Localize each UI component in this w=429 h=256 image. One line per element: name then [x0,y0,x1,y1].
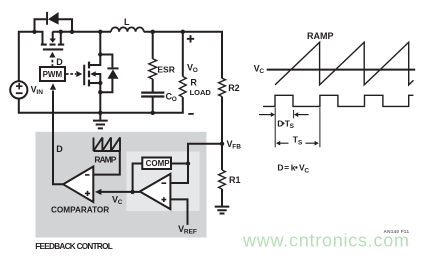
svg-text:D: D [277,163,283,173]
wire: top rail switch node segment [52,31,111,33]
svg-text:ESR: ESR [157,65,174,75]
PMOS gate bar [43,48,63,50]
VIN plus sign [16,83,22,89]
TS arrow [280,142,316,144]
NMOS Q2 gate bar [83,65,85,86]
svg-text:D: D [56,57,63,67]
svg-text:COMP: COMP [146,159,171,168]
svg-text:LOAD: LOAD [190,88,212,97]
error amp minus sign [162,182,167,184]
resistor R1 [219,170,226,189]
svg-text:www.cntronics.com: www.cntronics.com [242,231,409,251]
wire: VC from error amp to comparator [101,191,140,193]
svg-text:REF: REF [184,228,197,235]
svg-text:R: R [190,78,197,88]
label minus output [188,113,193,115]
resistor R LOAD [179,77,186,98]
wire: VIN top to PMOS source leg [19,32,43,82]
NMOS body arrow (left) [90,71,95,76]
wire: R2 to VFB node [221,97,223,144]
node VFB [220,142,224,146]
PWM block U1 [40,67,65,81]
catch diode D2 triangle [107,69,118,78]
wire: R LOAD branch top [182,32,184,77]
node: NMOS source tee [98,81,102,85]
svg-text:k: k [291,163,296,173]
PMOS body contact bar [50,44,56,46]
wire: PMOS drain leg [60,32,62,44]
svg-text:O: O [193,67,198,74]
svg-text:O: O [172,96,177,103]
ground symbol main [99,113,101,120]
wire: junction to error amp minus input [170,164,188,184]
wire: ESR branch top [152,32,154,59]
guide line right [319,108,321,148]
arrow into comparator plus input [95,189,101,195]
comparator U2 triangle [63,167,93,203]
wire: VFB to error amp [188,144,222,164]
VIN minus sign [16,92,23,94]
svg-text:=: = [284,163,289,173]
arrow into PWM [50,83,56,90]
svg-text:S: S [298,139,303,146]
svg-text:D: D [56,144,63,154]
D*TS arrow right [298,114,309,116]
catch diode D2 cathode bar [107,67,118,69]
svg-text:FB: FB [232,143,241,150]
label plus output [187,35,194,42]
svg-text:FEEDBACK CONTROL: FEEDBACK CONTROL [35,242,113,251]
wire: catch diode top branch [100,55,112,68]
wire: NMOS source stub and down to ground rail [90,83,100,113]
svg-text:PWM: PWM [43,70,63,79]
NMOS Q2 source contact bar [88,80,90,87]
resistor ESR [149,59,157,79]
NMOS Q2 drain contact bar [88,62,90,69]
diode D1 triangle [48,12,59,25]
wire: comparator output up to PWM [53,91,63,185]
resistor R2 [219,78,226,96]
VC axis line [267,69,416,71]
sawtooth waveform [275,42,414,85]
PMOS drain contact bar [58,44,64,46]
inductor L [111,27,144,31]
COMP block [142,158,171,170]
svg-text:L: L [124,17,130,27]
svg-text:R1: R1 [229,175,241,185]
capacitor CO plates [141,93,164,97]
PWM square waveform [263,95,413,106]
wire: COMP right to junction [171,163,188,165]
diode D1 cathode bar [46,12,48,25]
D*TS arrow left [259,114,272,116]
wire: VFB to R1 [221,144,223,170]
comparator minus sign [85,174,90,176]
svg-text:S: S [290,123,295,130]
PMOS gate drive dashed arrow [51,58,53,67]
svg-text:RAMP: RAMP [94,154,116,164]
wire: CO bottom [152,98,154,113]
node COMP/VFB junction [186,161,190,165]
node: CO bottom tee [151,111,155,115]
compensation inner shaded box [127,152,200,212]
tick at pulse fall [293,110,295,118]
PMOS body arrow (down) [52,32,54,39]
VIN source circle [10,81,27,98]
svg-text:RAMP: RAMP [307,31,334,41]
PWM output dashed arrow to NMOS gate [66,73,76,75]
NMOS Q2 body contact bar [88,71,90,78]
error amp plus sign [162,197,167,202]
node: catch diode top tee [98,52,102,56]
wire: switch node vertical to NMOS drain [90,32,100,65]
wire: R1 to ground [221,189,223,206]
feedback control shaded box [36,132,207,238]
guide line left [274,108,276,148]
svg-text:C: C [118,199,123,206]
wire: top rail output segment to R2 [144,32,222,78]
PMOS source contact bar [41,44,47,46]
node VC [130,190,134,194]
wire: VC to COMP block [133,164,143,192]
error amp U3 triangle [140,174,171,209]
wire: catch diode bottom branch [100,79,112,93]
wire: error amp plus input to VREF [170,199,187,225]
node: catch diode bottom tee [98,90,102,94]
wire: ramp to comparator minus input [93,151,120,175]
svg-text:C: C [304,167,309,174]
ramp icon sawtooth [94,138,121,152]
svg-text:IN: IN [36,89,43,96]
wire: bottom ground rail [19,97,183,113]
diode loop wire over PMOS [35,19,73,33]
node: ground rail tee [98,111,102,115]
junction dots on rails [32,30,36,34]
comparator plus sign [85,191,90,196]
svg-text:C: C [259,68,264,75]
wire: NMOS body stub [95,74,100,83]
ground symbol R1 [215,207,230,214]
svg-text:COMPARATOR: COMPARATOR [51,205,109,214]
svg-text:R2: R2 [228,83,240,93]
wire: ESR to CO [152,79,154,92]
